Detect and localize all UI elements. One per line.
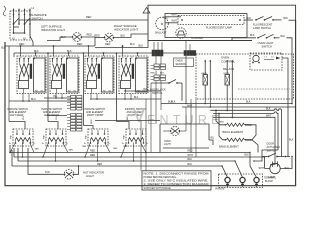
door lock switch	[150, 80, 182, 96]
svg-text:RED: RED	[87, 34, 92, 37]
oven control relay bake	[202, 60, 212, 99]
wire RED from left light	[81, 34, 95, 46]
wire WHT lower	[165, 20, 178, 23]
svg-text:OVEN LIGHT: OVEN LIGHT	[258, 41, 274, 45]
wire BLK mid2	[92, 97, 161, 99]
svg-text:RED: RED	[151, 72, 156, 74]
svg-text:SUPPLIED WITH RANGE.: SUPPLIED WITH RANGE.	[144, 187, 172, 190]
wire TAN hot light	[28, 148, 64, 174]
oven sensor grid	[151, 64, 166, 81]
svg-text:OVEN: OVEN	[164, 141, 171, 143]
scan mark top left	[3, 6, 6, 16]
svg-text:B: B	[161, 22, 163, 26]
svg-text:RED: RED	[247, 124, 252, 127]
svg-text:WHT: WHT	[172, 20, 178, 23]
broil element	[215, 110, 256, 140]
wire lower bus 2	[14, 148, 254, 157]
door actuated switch label	[267, 142, 280, 152]
wire lamp to fluorescent switch	[244, 19, 253, 21]
svg-text:SWITCH: SWITCH	[262, 44, 272, 48]
element right front	[84, 129, 111, 146]
svg-text:RED: RED	[90, 154, 95, 157]
oven light switch	[257, 34, 285, 48]
wire YEL mid	[124, 89, 161, 92]
svg-text:HOT INDICATOR: HOT INDICATOR	[83, 171, 104, 175]
svg-text:RED: RED	[86, 16, 91, 19]
wire L1 left rail and bottom bus	[5, 20, 296, 186]
svg-text:BLK: BLK	[250, 34, 255, 37]
svg-text:BLK: BLK	[247, 17, 252, 20]
svg-text:NOTE: 1. DISCONNECT RANGE FR: NOTE: 1. DISCONNECT RANGE FROM	[144, 172, 209, 175]
watermark V	[133, 106, 145, 126]
alternate switch N1 N2	[12, 39, 27, 41]
svg-text:RED: RED	[97, 163, 102, 166]
svg-text:RED: RED	[91, 119, 93, 124]
label left front	[42, 108, 63, 117]
svg-text:STARTER: STARTER	[191, 36, 203, 40]
svg-text:LAMP SWITCH: LAMP SWITCH	[253, 26, 271, 30]
left surface indicator light label	[41, 25, 65, 32]
notes box	[142, 171, 211, 190]
svg-text:WHT: WHT	[188, 154, 194, 157]
wire YEL upper	[53, 96, 58, 98]
svg-text:LIGHT: LIGHT	[86, 174, 94, 178]
svg-text:TAN: TAN	[123, 145, 128, 148]
label right rear	[125, 108, 146, 117]
infinite switch left rear	[17, 56, 46, 94]
oven cavity light	[163, 127, 186, 147]
svg-text:WHT: WHT	[266, 114, 272, 117]
oven light assembly	[250, 53, 288, 111]
wire RED label 2	[163, 17, 168, 20]
fluorescent lamp switch	[247, 17, 296, 31]
svg-text:TAN: TAN	[113, 147, 118, 150]
svg-text:BLK: BLK	[266, 107, 271, 110]
svg-text:RED: RED	[95, 34, 100, 37]
svg-text:WHT: WHT	[187, 105, 193, 107]
svg-text:LEFT FRONT: LEFT FRONT	[44, 114, 59, 117]
label left rear	[8, 108, 29, 117]
oven sensor label	[174, 58, 194, 67]
bake element	[218, 113, 258, 157]
left surface indicator light	[72, 33, 83, 42]
alternate switch box	[10, 11, 30, 40]
fluorescent housing inner box	[165, 14, 247, 38]
svg-text:LIGHT: LIGHT	[164, 144, 171, 146]
svg-text:BLK: BLK	[121, 34, 126, 37]
fluorescent lamp	[178, 16, 244, 30]
svg-text:V: V	[133, 106, 145, 126]
label right front	[85, 108, 106, 117]
wire YEL collector	[44, 97, 70, 99]
ballast B	[155, 17, 168, 34]
wire left rail drop	[9, 46, 14, 122]
svg-text:POWER BEFORE SERVICING.: POWER BEFORE SERVICING.	[144, 177, 177, 179]
wire door switch feed	[288, 111, 294, 157]
bus junction dots	[9, 152, 147, 162]
wires sensor down	[156, 56, 161, 75]
wire BLK to left light	[47, 36, 73, 41]
infinite switch left front	[50, 56, 79, 94]
oven control relay broil	[224, 60, 234, 99]
svg-text:LEFT REAR: LEFT REAR	[10, 114, 24, 117]
watermark ENTURE	[147, 113, 224, 127]
oven control label	[221, 55, 236, 71]
wires switches to collectors	[22, 94, 132, 102]
wire y120	[95, 120, 160, 122]
oven control inner dashed	[238, 88, 290, 90]
wire WHT upper	[165, 14, 181, 17]
wires into terminal block	[221, 152, 256, 178]
delta symbol	[143, 8, 150, 14]
svg-text:RANGE: RANGE	[216, 188, 225, 191]
element left front	[42, 129, 69, 146]
svg-text:WHT: WHT	[172, 14, 178, 17]
wires buses to switches	[20, 45, 139, 56]
svg-text:WHT: WHT	[259, 167, 265, 170]
wire RED bus row	[1, 43, 110, 50]
svg-text:INDICATOR LIGHT: INDICATOR LIGHT	[41, 28, 65, 32]
drop wire labels	[23, 115, 129, 124]
fluorescent housing	[148, 5, 296, 40]
wire mid bus 2	[187, 105, 278, 156]
wire YEL right	[209, 137, 215, 145]
wire door lock down	[168, 83, 182, 104]
wire bus y107	[182, 106, 296, 108]
wires elements to lower buses	[10, 143, 146, 162]
alternate switch label	[31, 13, 47, 21]
svg-text:RED: RED	[90, 150, 95, 153]
wire hot light right	[73, 165, 79, 174]
infinite switch right front	[85, 56, 114, 94]
svg-text:BLK: BLK	[284, 17, 289, 20]
svg-text:BLK: BLK	[245, 154, 250, 156]
svg-text:RED: RED	[247, 139, 252, 142]
svg-text:BLK: BLK	[246, 101, 251, 104]
wire lower bus 1	[10, 145, 250, 153]
svg-text:BLK: BLK	[171, 101, 176, 104]
wire L2 drop	[30, 24, 33, 46]
wire BLK from right light	[113, 34, 148, 38]
oven control box	[196, 54, 294, 99]
oven control connector	[184, 41, 196, 56]
wire RED to right light	[95, 34, 105, 37]
svg-text:BLK: BLK	[139, 44, 144, 47]
wire BLK bus upper	[95, 41, 148, 48]
connector J1	[67, 96, 82, 111]
starter	[176, 28, 203, 40]
svg-text:2. USE ONLY 90°C INSULATED: 2. USE ONLY 90°C INSULATED WIRE.	[144, 180, 210, 183]
TAN labels under elements	[35, 145, 128, 151]
infinite switch right rear	[119, 56, 148, 94]
svg-text:LAMP: LAMP	[269, 176, 276, 179]
element left rear	[9, 129, 36, 146]
svg-text:BLOCK: BLOCK	[265, 180, 274, 183]
right surface indicator light	[104, 33, 115, 42]
wire BLU	[9, 98, 70, 101]
svg-text:BLK: BLK	[289, 138, 294, 141]
element right rear	[122, 129, 149, 146]
oven cavity light box	[160, 124, 209, 153]
svg-text:SWITCH: SWITCH	[267, 149, 277, 152]
wires sensor connector up	[154, 42, 162, 50]
svg-text:TAN: TAN	[35, 148, 40, 151]
svg-text:BLK: BLK	[1, 46, 6, 49]
wire lower bus 3	[18, 148, 235, 161]
svg-text:ENTURE: ENTURE	[147, 113, 224, 127]
wire BLK bus row	[14, 43, 186, 53]
alternate switch contacts	[13, 15, 31, 34]
svg-text:TAN: TAN	[45, 171, 50, 174]
hot indicator light	[64, 170, 104, 180]
wire alt to red bus	[19, 20, 46, 24]
wire into J2	[47, 115, 67, 117]
svg-text:BAKE ELEMENT: BAKE ELEMENT	[219, 144, 239, 148]
oven lamp	[259, 162, 290, 179]
svg-text:YEL: YEL	[210, 137, 215, 140]
svg-text:RED: RED	[105, 43, 110, 46]
svg-text:INDICATOR LIGHT: INDICATOR LIGHT	[114, 28, 138, 32]
wires mid verticals down	[141, 99, 146, 171]
door actuated switch	[262, 153, 290, 157]
svg-text:TAN: TAN	[69, 149, 74, 152]
wires between switch boxes	[47, 52, 117, 125]
svg-text:3. REFER TO CONNECTION DIAG: 3. REFER TO CONNECTION DIAGRAM	[144, 183, 209, 186]
svg-text:YEL: YEL	[143, 89, 148, 91]
wire BLK lower bus	[210, 107, 281, 156]
wire lower bus 4	[12, 150, 222, 166]
wire mid verticals	[185, 53, 196, 157]
svg-text:CONTROL: CONTROL	[221, 59, 236, 63]
svg-text:RED: RED	[188, 150, 193, 153]
svg-text:TAN: TAN	[82, 145, 87, 148]
terminal block	[216, 174, 277, 191]
svg-text:BLK: BLK	[130, 43, 135, 46]
svg-text:SENSOR: SENSOR	[176, 63, 187, 66]
alternate switch terminals	[13, 8, 35, 15]
wire WHT bus	[213, 114, 275, 164]
wires into element tops	[9, 122, 129, 130]
svg-text:BLK: BLK	[61, 36, 66, 39]
wire BLK mid bus	[161, 101, 293, 105]
wire door switch left	[253, 157, 262, 162]
oven sensor connector	[152, 50, 163, 56]
svg-text:RED: RED	[220, 121, 225, 123]
wire oven light switch to rail	[287, 38, 293, 104]
wires relays down	[204, 99, 233, 118]
svg-text:BALLAST: BALLAST	[155, 31, 167, 35]
wires sensor drops	[151, 81, 161, 153]
svg-text:RIGHT FRONT: RIGHT FRONT	[87, 114, 104, 117]
svg-text:BLK: BLK	[188, 163, 193, 166]
svg-text:RED: RED	[77, 43, 82, 46]
wires lamp	[254, 156, 293, 169]
svg-text:YEL: YEL	[53, 96, 58, 98]
wire RED top bus	[46, 16, 148, 20]
connector J2	[67, 114, 82, 132]
svg-text:BLK: BLK	[188, 158, 193, 161]
svg-text:BROIL ELEMENT: BROIL ELEMENT	[223, 130, 244, 134]
svg-text:BLK: BLK	[281, 35, 286, 38]
wire BLK oven light sw	[232, 34, 256, 40]
svg-text:FLUORESCENT LAMP: FLUORESCENT LAMP	[206, 27, 232, 30]
right surface indicator light label	[114, 24, 138, 32]
svg-text:FLUORESCENT: FLUORESCENT	[253, 23, 273, 27]
